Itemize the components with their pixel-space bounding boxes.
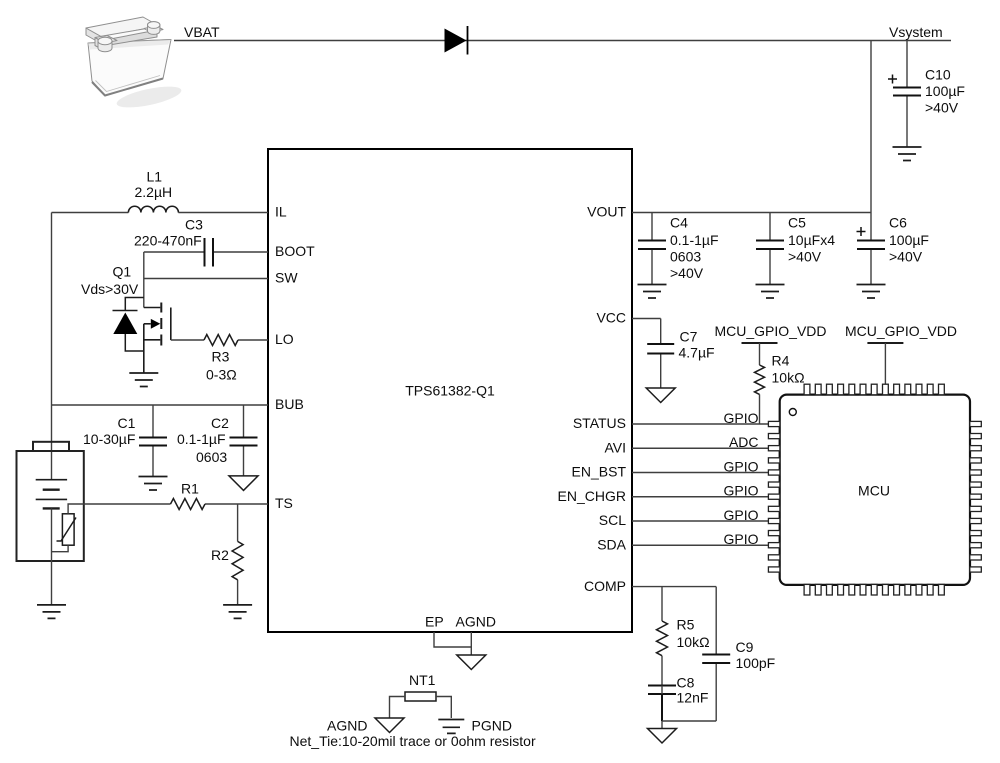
svg-text:>40V: >40V xyxy=(889,249,923,265)
svg-text:MCU_GPIO_VDD: MCU_GPIO_VDD xyxy=(845,323,957,339)
svg-text:4.7µF: 4.7µF xyxy=(679,345,715,361)
body diode Q1 xyxy=(113,298,144,352)
AGND C7 xyxy=(646,388,675,403)
svg-text:Q1: Q1 xyxy=(113,264,132,280)
battery pack box xyxy=(17,442,84,561)
svg-text:BOOT: BOOT xyxy=(275,243,315,259)
svg-text:R3: R3 xyxy=(212,349,230,365)
svg-text:AGND: AGND xyxy=(327,718,367,734)
capacitor C2 xyxy=(177,405,258,476)
svg-text:LO: LO xyxy=(275,331,294,347)
thermistor xyxy=(57,514,77,545)
MCU top pins xyxy=(804,384,944,395)
svg-text:MCU: MCU xyxy=(858,483,890,499)
svg-text:GPIO: GPIO xyxy=(723,483,758,499)
AGND COMP xyxy=(648,729,677,744)
wire TS xyxy=(52,504,269,552)
svg-text:VBAT: VBAT xyxy=(184,24,220,40)
svg-text:VCC: VCC xyxy=(596,310,626,326)
svg-text:12nF: 12nF xyxy=(677,690,709,706)
wire SW xyxy=(144,278,268,280)
svg-text:IL: IL xyxy=(275,204,287,220)
capacitor C8 xyxy=(648,675,708,722)
wire BUB xyxy=(52,404,269,406)
svg-text:0.1-1µF: 0.1-1µF xyxy=(177,431,226,447)
svg-text:C9: C9 xyxy=(736,639,754,655)
wire EP xyxy=(434,632,471,655)
svg-text:10-30µF: 10-30µF xyxy=(83,431,135,447)
svg-text:100pF: 100pF xyxy=(736,655,776,671)
resistor R1 xyxy=(171,481,206,510)
svg-text:C8: C8 xyxy=(677,675,695,691)
net tie NT1 xyxy=(390,672,452,718)
wire GPIO net xyxy=(632,544,768,546)
svg-text:SCL: SCL xyxy=(599,512,626,528)
MCU body xyxy=(780,395,970,585)
AGND EP xyxy=(457,655,486,670)
svg-text:0603: 0603 xyxy=(196,449,227,465)
AGND C2 xyxy=(229,476,258,491)
svg-text:C7: C7 xyxy=(680,329,698,345)
svg-text:COMP: COMP xyxy=(584,578,626,594)
svg-text:R4: R4 xyxy=(772,353,790,369)
wire left rail xyxy=(51,213,53,480)
svg-text:AGND: AGND xyxy=(456,614,496,630)
wire battery negative xyxy=(51,508,53,605)
wire GPIO net xyxy=(632,423,768,425)
battery icon xyxy=(86,17,183,112)
svg-text:VOUT: VOUT xyxy=(587,204,626,220)
svg-text:C10: C10 xyxy=(925,67,951,83)
svg-text:Net_Tie:10-20mil trace or 0ohm: Net_Tie:10-20mil trace or 0ohm resistor xyxy=(290,733,536,749)
ground C6 xyxy=(857,285,886,299)
svg-text:ADC: ADC xyxy=(729,434,759,450)
svg-text:10µFx4: 10µFx4 xyxy=(788,232,835,248)
wire BOOT xyxy=(144,252,268,308)
svg-text:220-470nF: 220-470nF xyxy=(134,233,202,249)
inductor L1 xyxy=(128,169,178,213)
PGND symbol NT1 xyxy=(438,718,512,734)
capacitor C7 xyxy=(647,319,714,389)
svg-text:MCU_GPIO_VDD: MCU_GPIO_VDD xyxy=(715,323,827,339)
wire GPIO net xyxy=(632,472,768,474)
capacitor C9 xyxy=(702,587,775,721)
wire GPIO net xyxy=(632,520,768,522)
battery cell symbol xyxy=(36,480,67,509)
svg-text:C5: C5 xyxy=(788,215,806,231)
svg-text:EP: EP xyxy=(425,614,444,630)
svg-text:L1: L1 xyxy=(147,169,163,185)
svg-text:GPIO: GPIO xyxy=(723,507,758,523)
wire COMP bottom xyxy=(662,686,716,729)
power MCU_GPIO_VDD R4 xyxy=(715,323,827,343)
svg-text:R2: R2 xyxy=(211,547,229,563)
svg-text:Vds>30V: Vds>30V xyxy=(81,281,139,297)
resistor R3 xyxy=(204,335,238,383)
diode D1 xyxy=(445,26,468,55)
svg-text:BUB: BUB xyxy=(275,396,304,412)
ground C5 xyxy=(756,285,785,299)
wire VOUT xyxy=(632,212,871,214)
svg-text:10kΩ: 10kΩ xyxy=(772,370,805,386)
svg-text:GPIO: GPIO xyxy=(723,410,758,426)
svg-text:100µF: 100µF xyxy=(889,232,929,248)
svg-text:0-3Ω: 0-3Ω xyxy=(206,367,237,383)
svg-text:0.1-1µF: 0.1-1µF xyxy=(670,232,719,248)
capacitor C6 xyxy=(857,213,929,285)
svg-text:>40V: >40V xyxy=(788,249,822,265)
MCU left pins xyxy=(768,421,780,572)
svg-text:AVI: AVI xyxy=(604,439,626,455)
svg-text:EN_CHGR: EN_CHGR xyxy=(558,488,626,504)
ground C4 xyxy=(638,285,667,299)
svg-text:C4: C4 xyxy=(670,215,688,231)
ground R2 xyxy=(223,605,252,619)
wire Vsystem to VOUT xyxy=(870,41,872,213)
svg-text:R1: R1 xyxy=(181,481,199,497)
wire LO xyxy=(171,339,268,341)
capacitor C5 xyxy=(756,213,835,285)
MCU right pins xyxy=(970,421,982,572)
MCU bottom pins xyxy=(804,584,944,595)
svg-text:R5: R5 xyxy=(677,617,695,633)
capacitor C1 xyxy=(83,405,167,477)
svg-text:TS: TS xyxy=(275,495,293,511)
svg-text:GPIO: GPIO xyxy=(723,531,758,547)
ground C1 xyxy=(139,477,168,491)
AGND symbol NT1 xyxy=(327,718,404,734)
svg-text:10kΩ: 10kΩ xyxy=(677,634,710,650)
capacitor C3 xyxy=(134,217,213,267)
svg-text:Vsystem: Vsystem xyxy=(889,24,943,40)
wire VBAT rail xyxy=(174,40,951,42)
op-amp U1 TPS61382-Q1 body xyxy=(268,149,632,632)
capacitor C4 xyxy=(638,213,719,285)
svg-text:SDA: SDA xyxy=(597,536,626,552)
svg-text:>40V: >40V xyxy=(925,100,959,116)
svg-text:EN_BST: EN_BST xyxy=(572,464,627,480)
svg-text:C2: C2 xyxy=(211,415,229,431)
svg-text:STATUS: STATUS xyxy=(573,415,626,431)
svg-text:C6: C6 xyxy=(889,215,907,231)
ground C10 xyxy=(893,147,922,161)
resistor R5 xyxy=(657,587,710,686)
svg-text:GPIO: GPIO xyxy=(723,458,758,474)
svg-text:C3: C3 xyxy=(185,217,203,233)
svg-text:2.2µH: 2.2µH xyxy=(135,184,173,200)
svg-text:100µF: 100µF xyxy=(925,83,965,99)
capacitor C10 xyxy=(888,41,965,148)
resistor R2 xyxy=(211,504,243,605)
wire VCC xyxy=(632,318,661,320)
svg-text:SW: SW xyxy=(275,270,298,286)
svg-text:>40V: >40V xyxy=(670,265,704,281)
ground Q1 source xyxy=(129,373,158,387)
transistor Q1 xyxy=(144,303,171,374)
wire IL xyxy=(52,212,269,214)
svg-text:PGND: PGND xyxy=(472,718,512,734)
svg-text:C1: C1 xyxy=(118,415,136,431)
ground battery xyxy=(37,605,66,619)
svg-text:TPS61382-Q1: TPS61382-Q1 xyxy=(405,383,495,399)
wire GPIO net xyxy=(632,496,768,498)
wire COMP xyxy=(632,586,716,588)
resistor R4 xyxy=(755,343,805,424)
power MCU_GPIO_VDD MCU xyxy=(845,323,957,384)
svg-text:NT1: NT1 xyxy=(409,672,436,688)
svg-text:0603: 0603 xyxy=(670,249,701,265)
wire ADC net xyxy=(632,447,768,449)
